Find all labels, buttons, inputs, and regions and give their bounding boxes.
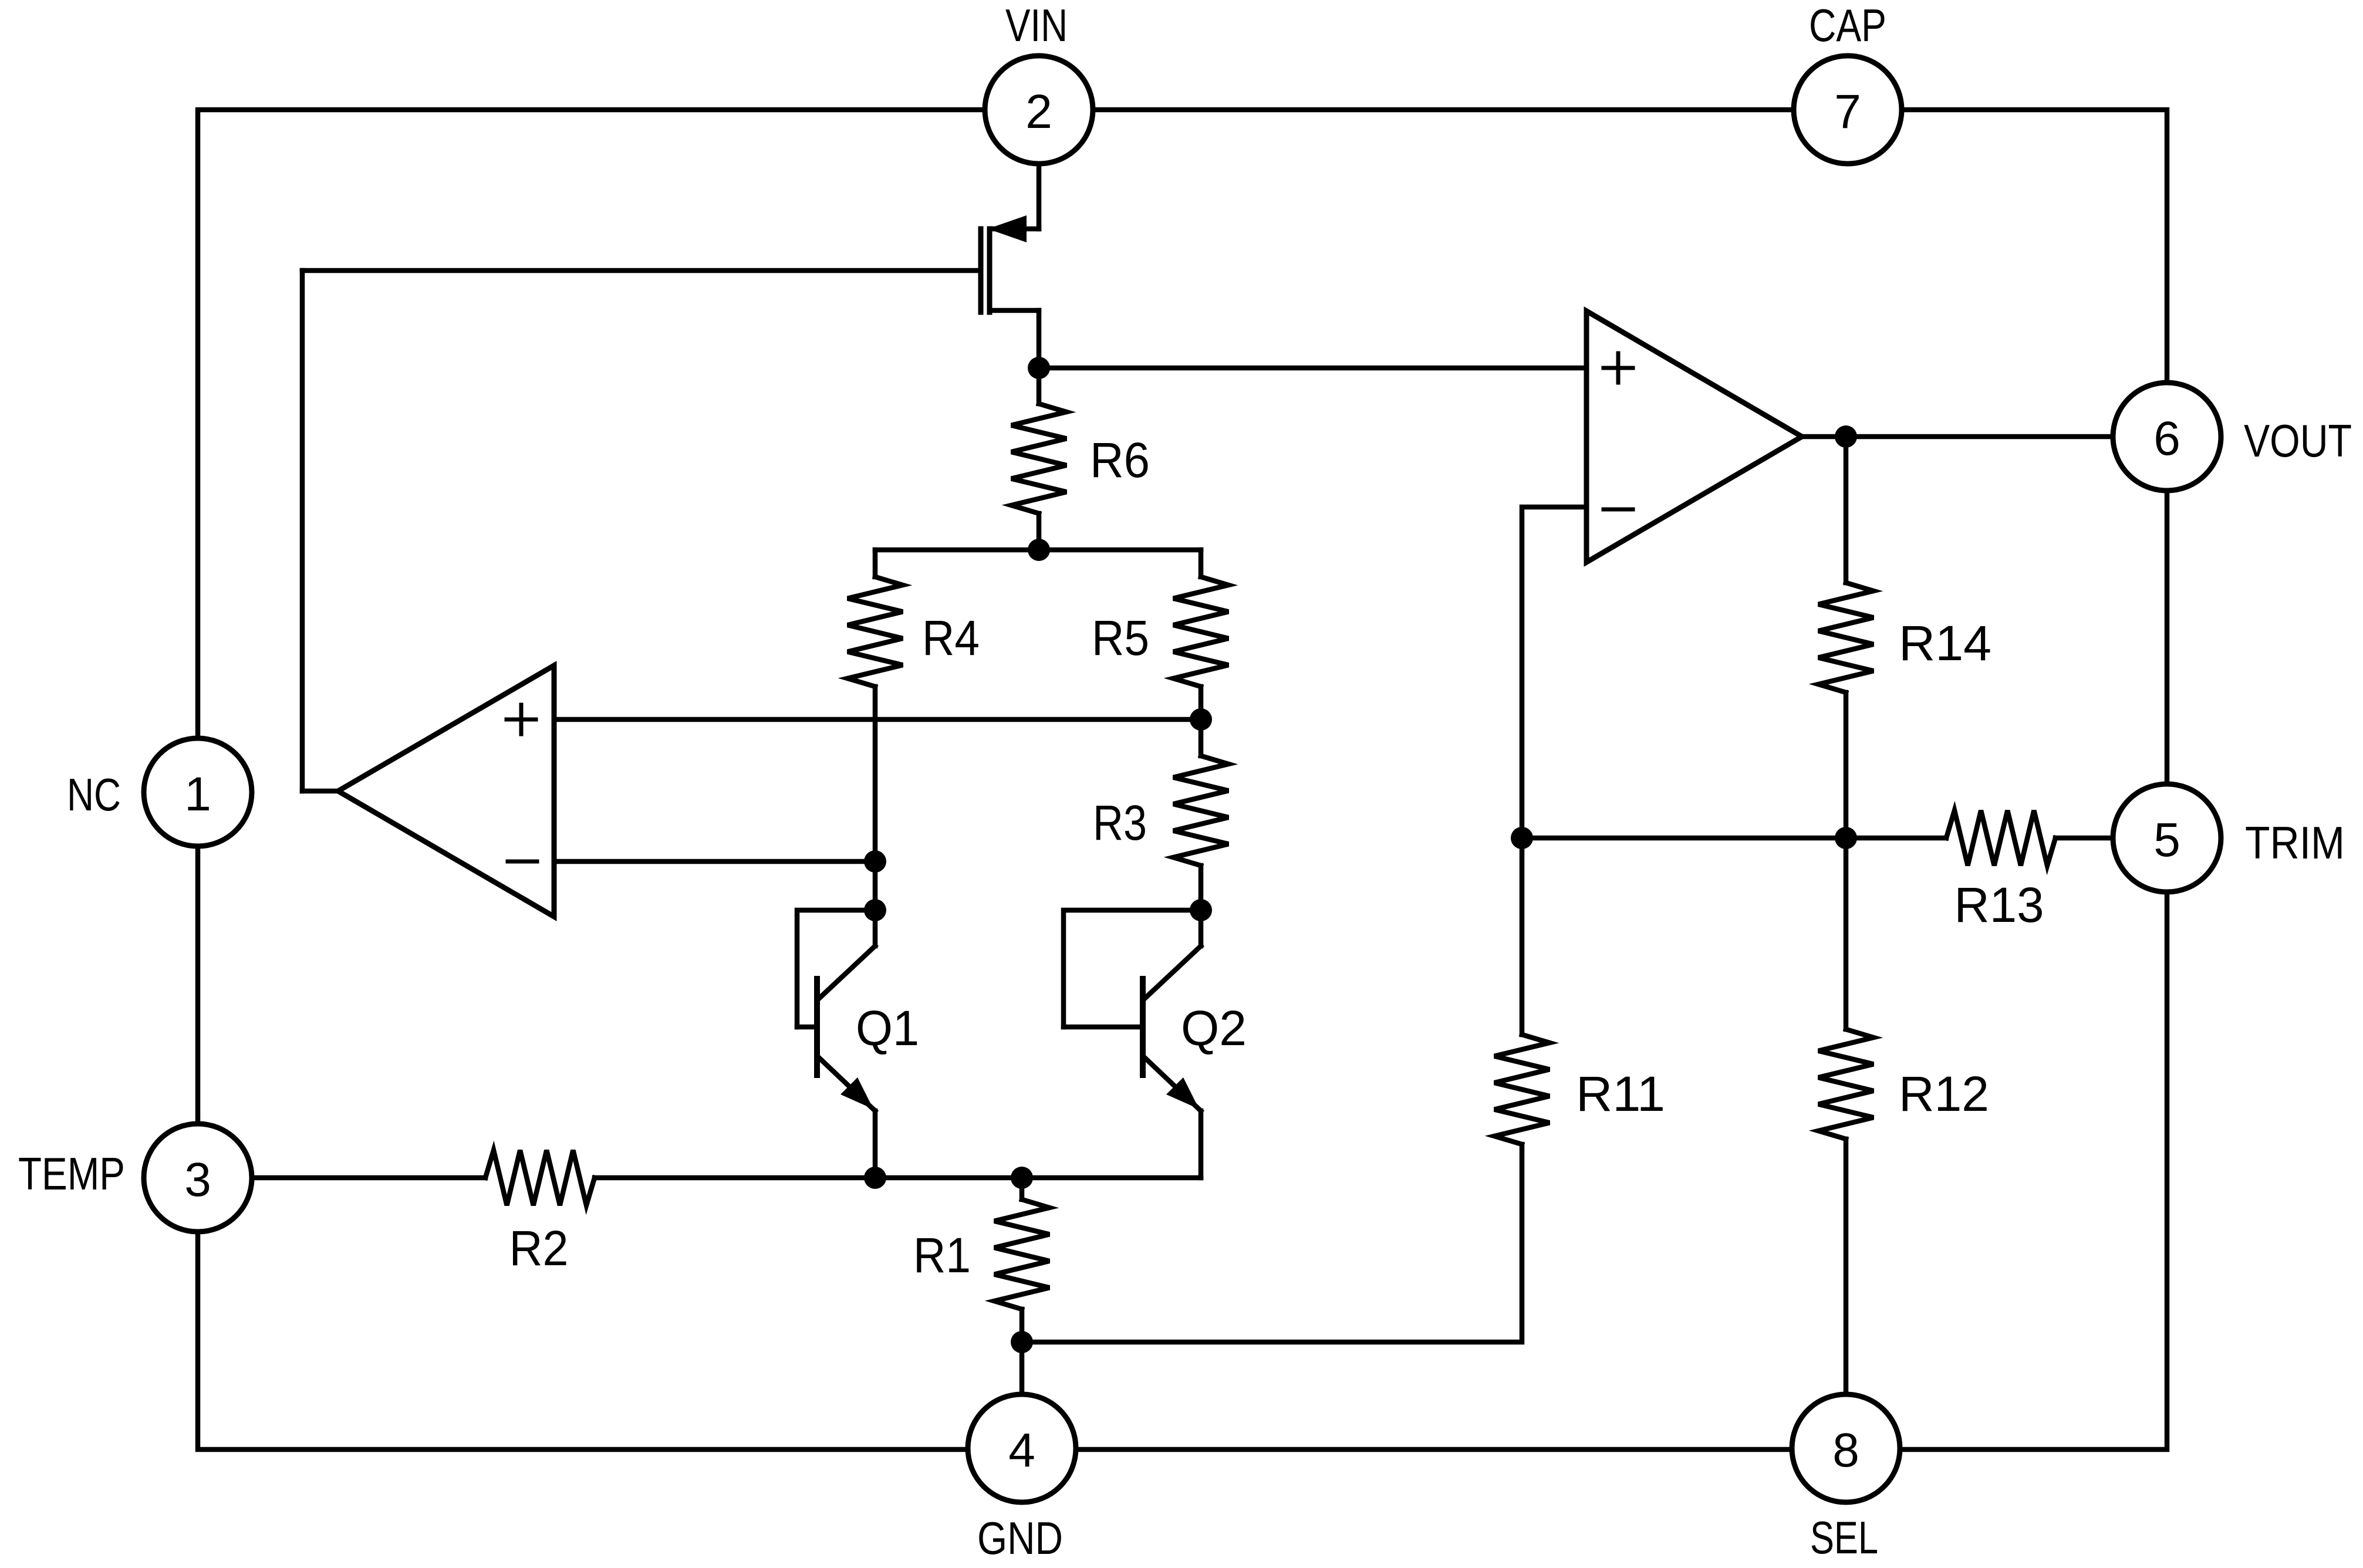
wire R6 to node B [1037, 513, 1042, 550]
wire U1 output stub [302, 789, 338, 794]
node Q1 base tie junction dot [864, 899, 886, 921]
wire R2 to Q2 emitter rail [595, 1175, 1201, 1181]
pin 7 CAP [1794, 56, 1902, 164]
node H junction dot [1835, 827, 1857, 849]
svg-text:8: 8 [1832, 1424, 1859, 1477]
svg-text:4: 4 [1008, 1424, 1035, 1477]
svg-text:GND: GND [977, 1512, 1063, 1564]
wire R4 to Q1 collector (node C) [873, 687, 878, 946]
resistor R2 [485, 1150, 595, 1205]
wire node D to R3 [1199, 719, 1204, 756]
svg-text:R1: R1 [913, 1228, 971, 1283]
resistor R1 [994, 1199, 1049, 1309]
transistor Q1 [797, 910, 875, 1178]
wire node H to R12 [1844, 838, 1849, 1029]
wire M1 drain to node A [1037, 310, 1042, 368]
svg-text:TRIM: TRIM [2245, 817, 2345, 869]
transistor M1 (PMOS pass device) [981, 215, 1039, 312]
svg-text:R6: R6 [1090, 432, 1150, 488]
wire R5 to node D [1199, 687, 1204, 719]
wire R1 bottom lead [1020, 1309, 1025, 1342]
pin 6 VOUT [2113, 383, 2221, 491]
svg-text:1: 1 [184, 768, 211, 821]
svg-text:7: 7 [1834, 85, 1861, 138]
pin 8 SEL [1792, 1394, 1900, 1502]
node Q1 emitter junction dot [864, 1167, 886, 1189]
svg-text:R5: R5 [1092, 610, 1149, 665]
wire rail to R4 [873, 550, 878, 577]
svg-text:R13: R13 [1954, 877, 2044, 932]
wire U2 output to VOUT pin 6 [1802, 434, 2113, 440]
svg-text:2: 2 [1025, 85, 1052, 138]
svg-text:Q1: Q1 [856, 1001, 919, 1056]
node A junction dot [1028, 357, 1050, 379]
op-amp U1 [338, 665, 554, 917]
wire node K to R14 [1844, 437, 1849, 583]
wire node A to R6 [1037, 368, 1042, 404]
wire node J to U2 - input [1522, 507, 1586, 838]
pin 5 TRIM [2113, 784, 2221, 892]
svg-text:5: 5 [2153, 813, 2180, 867]
node D junction dot [1190, 708, 1212, 731]
node J junction dot [1511, 827, 1533, 849]
pin 3 TEMP [144, 1124, 252, 1232]
node G junction dot [1011, 1331, 1033, 1353]
wire R11 to node J [1520, 838, 1525, 1035]
wire rail to R5 [1199, 550, 1204, 577]
svg-text:Q2: Q2 [1181, 1001, 1247, 1056]
wire node A to op-amp U2 + input [1039, 366, 1586, 371]
resistor R14 [1818, 583, 1873, 692]
resistor R11 [1494, 1035, 1550, 1144]
wire R3 to Q2 collector [1199, 866, 1204, 946]
svg-text:R4: R4 [922, 610, 980, 665]
wire M1 gate [302, 268, 978, 273]
wire R12 to SEL pin 8 [1844, 1139, 1849, 1394]
wire node J to node H [1522, 836, 1846, 841]
op-amp U2 [1586, 311, 1802, 562]
resistor R12 [1818, 1029, 1873, 1139]
svg-text:R14: R14 [1899, 616, 1991, 671]
node K junction dot [1835, 425, 1857, 448]
wire node H to R13 [1846, 836, 1946, 841]
svg-text:3: 3 [184, 1153, 211, 1207]
node C junction dot [864, 850, 886, 873]
svg-text:R11: R11 [1576, 1066, 1665, 1121]
node Q2 base tie junction dot [1190, 899, 1212, 921]
wire U1 output to M1 gate [300, 271, 305, 791]
pin 2 VIN [985, 56, 1093, 164]
svg-text:NC: NC [67, 769, 121, 820]
svg-text:VOUT: VOUT [2244, 415, 2352, 467]
wire VIN pin 2 to M1 source [1037, 164, 1042, 229]
wire R13 to TRIM pin 5 [2055, 836, 2113, 841]
node B junction dot [1028, 539, 1050, 561]
resistor R4 [848, 577, 903, 687]
wire node G to GND pin 4 [1020, 1342, 1025, 1394]
pin 1 NC [144, 738, 252, 846]
resistor R6 [1011, 404, 1066, 513]
svg-text:SEL: SEL [1810, 1512, 1878, 1563]
wire U1 - input to node C [554, 859, 875, 864]
resistor R13 [1946, 810, 2055, 866]
wire node B rail to R4 and R5 [875, 548, 1201, 553]
wire R1 top lead [1020, 1178, 1025, 1199]
resistor R5 [1173, 577, 1228, 687]
resistor R3 [1173, 756, 1228, 866]
node R1 top junction dot [1011, 1167, 1033, 1189]
wire node D to op-amp U1 + input [554, 717, 1201, 722]
svg-text:6: 6 [2153, 412, 2180, 465]
wire node G to R11 [1022, 1144, 1522, 1342]
svg-text:R3: R3 [1093, 795, 1147, 850]
svg-text:TEMP: TEMP [18, 1148, 125, 1199]
wire outer border (pin ring) [198, 110, 2167, 1449]
svg-text:R12: R12 [1899, 1066, 1989, 1121]
wire TEMP pin 3 to R2 [252, 1175, 485, 1181]
svg-text:CAP: CAP [1809, 0, 1886, 51]
svg-text:R2: R2 [509, 1221, 569, 1276]
wire R14 to node H [1844, 692, 1849, 838]
transistor Q2 [1064, 910, 1201, 1178]
pin 4 GND [968, 1394, 1076, 1502]
svg-text:VIN: VIN [1005, 0, 1068, 51]
